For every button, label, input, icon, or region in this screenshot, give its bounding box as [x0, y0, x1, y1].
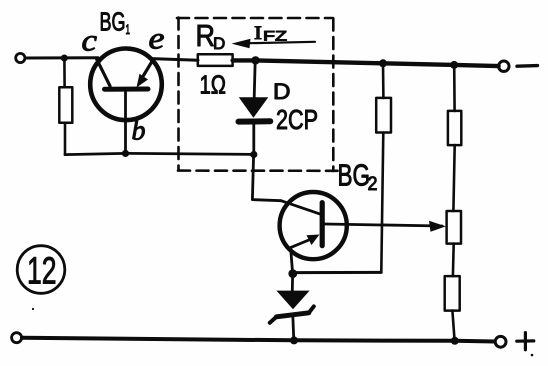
label plus: [517, 333, 534, 350]
node junction base of BG1: [122, 150, 129, 157]
svg-text:b: b: [132, 116, 146, 147]
wire top rail right (thick): [233, 60, 499, 66]
wire R1 top lead: [63, 58, 66, 87]
diode D: [239, 97, 271, 121]
terminal T1 (top left): [16, 53, 25, 62]
svg-text:c: c: [82, 23, 98, 58]
node junction diode bottom: [250, 151, 257, 158]
dashed box left edge: [177, 18, 180, 171]
wire potentiometer to R5: [452, 244, 455, 277]
dashed box right edge: [332, 19, 335, 172]
wire to BG2 collector: [252, 155, 281, 201]
svg-text:2: 2: [368, 174, 378, 195]
wire bottom rail: [22, 338, 495, 342]
svg-text:1: 1: [126, 21, 131, 37]
speckle dots: [32, 308, 34, 310]
node junction BG2 emitter: [288, 269, 297, 278]
wire zener anode lead: [291, 276, 294, 291]
terminal T4 (top right): [499, 61, 509, 71]
wire diode cathode lead: [252, 125, 255, 155]
resistor R1: [59, 87, 72, 123]
label minus: [517, 64, 538, 68]
transistor BG1: [90, 49, 162, 154]
wire R1 bottom lead: [64, 123, 67, 155]
zener diode DW: [270, 291, 314, 323]
node junction zener bottom: [290, 336, 298, 344]
wire base bus (R1 to diode node): [65, 153, 254, 154]
terminal T2 (bottom left): [12, 333, 22, 343]
resistor RD: [198, 54, 233, 66]
svg-text:I: I: [254, 23, 262, 44]
wire emitter bus: [296, 271, 381, 274]
wire zener cathode lead: [293, 316, 294, 341]
node junction diode top: [251, 56, 259, 64]
dashed box bottom edge: [178, 169, 338, 172]
wire R3 top lead: [453, 65, 456, 111]
wire R2 bottom lead: [381, 133, 383, 273]
wire rail into RD: [152, 59, 198, 61]
svg-text:12: 12: [27, 251, 57, 293]
resistor R3: [448, 111, 461, 145]
svg-text:1Ω: 1Ω: [200, 70, 227, 100]
svg-text:FZ: FZ: [263, 29, 287, 44]
potentiometer R4: [447, 211, 461, 244]
transistor BG2: [280, 192, 446, 271]
svg-text:e: e: [149, 21, 165, 56]
wire R5 bottom lead: [452, 311, 454, 341]
svg-text:D: D: [213, 34, 225, 53]
svg-text:D: D: [273, 79, 291, 104]
svg-text:2CP: 2CP: [276, 104, 318, 135]
current arrow IFZ: [232, 39, 316, 48]
wire diode anode lead: [254, 61, 255, 98]
svg-text:BG: BG: [338, 159, 371, 193]
resistor R5: [445, 276, 460, 311]
terminal T3 (bottom right): [495, 336, 506, 347]
node junction at R1 top: [61, 55, 68, 62]
wire R3 to potentiometer: [453, 145, 454, 211]
figure number 12: [17, 246, 65, 294]
node junction bottom right: [451, 337, 459, 345]
svg-text:BG: BG: [100, 9, 126, 37]
dashed box top edge: [177, 17, 333, 20]
wire R2 top lead: [382, 64, 385, 99]
node junction R3 top: [450, 61, 458, 69]
wire top rail left: [25, 56, 98, 59]
node junction R2 top: [379, 59, 387, 67]
resistor R2: [376, 98, 391, 133]
